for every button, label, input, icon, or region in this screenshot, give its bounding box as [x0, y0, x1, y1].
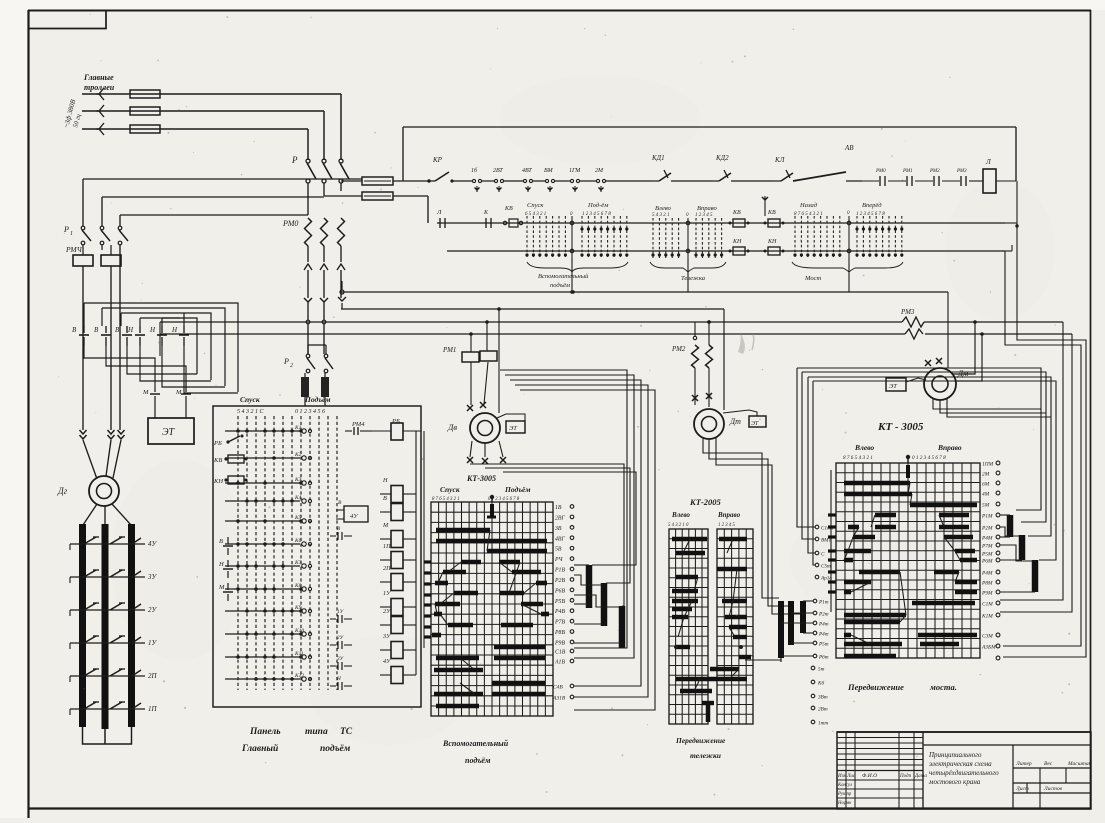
svg-text:Вправо: Вправо: [697, 205, 717, 212]
svg-text:Вправо: Вправо: [717, 511, 741, 519]
grid3 cam bars: [844, 483, 977, 656]
panel aux contact 4У box: [336, 500, 368, 522]
svg-text:РМ4: РМ4: [351, 421, 365, 428]
controller мост zero: [847, 211, 851, 258]
svg-text:С5т: С5т: [821, 564, 831, 570]
svg-text:4У: 4У: [148, 540, 158, 548]
svg-text:Н: Н: [171, 326, 178, 334]
svg-text:К12: К12: [294, 673, 304, 679]
svg-text:Вспомогательный: Вспомогательный: [538, 273, 589, 280]
wires РМ1 to motor: [471, 309, 499, 413]
svg-text:Р2М: Р2М: [981, 526, 993, 532]
panel header Спуск Подъём: [237, 395, 331, 415]
svg-text:К7: К7: [294, 560, 302, 566]
contact Л aux: [436, 209, 445, 228]
svg-text:3У: 3У: [147, 573, 158, 581]
svg-text:2У: 2У: [148, 606, 158, 614]
knife switch Р1: [63, 225, 128, 245]
grid3 right terminal labels: [981, 461, 1000, 660]
wires motor Дм to grid3 bundle: [933, 399, 1051, 510]
svg-text:М: М: [175, 389, 182, 396]
svg-text:Передвижение: Передвижение: [847, 682, 904, 692]
wires converging to motor Дг: [83, 440, 121, 479]
grid2 upper terminal labels: [815, 525, 833, 581]
controller Назад columns: [793, 202, 841, 258]
svg-text:2П: 2П: [148, 672, 158, 680]
grid1 caption: [442, 739, 509, 765]
svg-text:ТС: ТС: [340, 727, 353, 737]
svg-text:мостового крана: мостового крана: [928, 778, 981, 786]
svg-text:1П: 1П: [383, 543, 391, 550]
svg-text:М: М: [382, 522, 389, 529]
svg-text:Рук.пр: Рук.пр: [837, 792, 852, 797]
svg-text:РМ2: РМ2: [671, 345, 686, 353]
svg-text:Р6В: Р6В: [554, 588, 565, 594]
svg-text:АВ: АВ: [844, 144, 854, 152]
wire taps to left circuit: [83, 178, 362, 180]
contact КВ with box: [503, 206, 522, 227]
svg-text:Р: Р: [291, 155, 298, 165]
panel interlock contact РМ4: [345, 421, 372, 435]
svg-text:3Вт: 3Вт: [818, 695, 828, 701]
right bundle corners down: [1000, 245, 1086, 657]
svg-text:Вправо: Вправо: [937, 443, 962, 452]
svg-text:А3БМ: А3БМ: [981, 645, 996, 651]
svg-text:КВ: КВ: [732, 210, 741, 216]
grid2 diagonals and dots: [674, 539, 743, 722]
panel left contacts В Н М: [218, 537, 233, 601]
svg-text:2П: 2П: [383, 565, 391, 572]
svg-text:1У: 1У: [383, 590, 391, 597]
svg-text:Главные: Главные: [83, 73, 114, 82]
svg-text:ЭТ: ЭТ: [509, 425, 517, 432]
svg-text:троллеи: троллеи: [84, 83, 115, 92]
grid1 step diagonals: [435, 530, 541, 694]
motor Дм: [924, 358, 968, 400]
svg-text:4ВГ: 4ВГ: [555, 535, 565, 542]
svg-text:Панель: Панель: [249, 727, 281, 737]
svg-text:Дв: Дв: [447, 422, 457, 432]
svg-text:Р7М: Р7М: [981, 544, 993, 550]
panel relay coil РБ: [372, 418, 421, 440]
trolley phase wire L2: [82, 105, 324, 117]
svg-text:К1М: К1М: [981, 614, 993, 620]
paper smudge marks: [738, 332, 754, 354]
svg-text:РМЧ: РМЧ: [65, 245, 83, 254]
svg-text:2ВТ: 2ВТ: [493, 168, 503, 174]
svg-text:М: М: [142, 389, 149, 396]
svg-text:РМ3: РМ3: [900, 308, 915, 316]
svg-text:5 4 3 2 1 С: 5 4 3 2 1 С: [237, 408, 265, 415]
panel contact КВ: [213, 455, 248, 464]
svg-text:КТ-2005: КТ-2005: [689, 497, 722, 507]
svg-text:КД1: КД1: [651, 154, 665, 162]
svg-text:РМ1: РМ1: [902, 169, 913, 174]
wires motor to resistor bank: [83, 504, 131, 525]
svg-text:КТ - 3005: КТ - 3005: [877, 421, 924, 433]
svg-text:моста.: моста.: [929, 682, 957, 692]
svg-text:тележки: тележки: [690, 751, 721, 760]
wire bundle РМ1 area to grid1 terminals: [500, 370, 655, 710]
svg-text:5В: 5В: [555, 547, 562, 553]
grid3 left wire stubs: [828, 470, 836, 612]
svg-text:1: 1: [70, 231, 73, 237]
brake magnet ЭТ мост: [880, 364, 926, 391]
svg-text:В: В: [72, 326, 77, 334]
controller Влево columns: [651, 205, 680, 258]
grid3 caption: [847, 682, 957, 692]
overload relay РМ1: [442, 334, 497, 362]
svg-text:1 2 3 4 5 6 7 8: 1 2 3 4 5 6 7 8: [582, 212, 611, 217]
svg-text:Н: Н: [149, 326, 156, 334]
svg-text:5т: 5т: [818, 667, 825, 673]
grid1 left wire stubs: [421, 431, 431, 658]
grid1 right terminal labels: [552, 505, 574, 702]
svg-text:РМ2: РМ2: [929, 169, 940, 174]
wire bus to Дм: [928, 292, 948, 370]
svg-text:0 1 2 3 4 5 6 7 8: 0 1 2 3 4 5 6 7 8: [912, 454, 946, 461]
motor branch chevrons: [304, 298, 328, 354]
overload relay РМ3: [900, 308, 925, 339]
line contactor coil Л: [983, 158, 1016, 193]
wire third phase: [119, 245, 121, 430]
svg-text:Р1т: Р1т: [818, 600, 829, 606]
limit switch contacts row: [452, 167, 651, 192]
svg-text:Р6т: Р6т: [818, 655, 829, 661]
svg-text:Главный: Главный: [241, 743, 278, 754]
grid3 zero column marker: [906, 455, 910, 478]
svg-text:РМ3: РМ3: [956, 169, 967, 174]
svg-text:Р1В: Р1В: [554, 568, 565, 574]
fuse F3: [130, 125, 160, 133]
svg-text:Тележка: Тележка: [681, 275, 705, 282]
grid1 cam bars: [432, 530, 549, 706]
overload coil РМЧ: [65, 245, 93, 430]
svg-text:Р2т: Р2т: [818, 612, 829, 618]
svg-text:5М: 5М: [982, 503, 990, 509]
svg-text:6М: 6М: [982, 482, 990, 488]
svg-text:С1М: С1М: [982, 602, 993, 608]
svg-text:Подъём: Подъём: [504, 485, 531, 494]
paper tone blotches: [110, 75, 1055, 745]
brake magnet ЭТ тележка: [721, 410, 766, 427]
brake contact М: [142, 388, 160, 402]
svg-text:Р5т: Р5т: [818, 642, 829, 648]
svg-text:4М: 4М: [982, 492, 990, 498]
relay contact КЛ: [773, 156, 793, 181]
svg-text:К4: К4: [294, 494, 302, 501]
grid1 step resistor bars: [574, 565, 622, 648]
svg-text:1б: 1б: [471, 167, 478, 174]
svg-text:РМ0: РМ0: [875, 169, 886, 174]
svg-text:Р7В: Р7В: [554, 620, 565, 626]
controller zero column: [570, 212, 574, 258]
grid2 resistor bars: [745, 599, 817, 662]
svg-text:А31В: А31В: [552, 696, 566, 702]
svg-text:КН: КН: [767, 239, 777, 245]
svg-text:Нормк: Нормк: [837, 801, 852, 806]
resistor bank bottom link: [83, 727, 132, 744]
motor Дт: [692, 393, 741, 439]
wire fuse outputs: [393, 127, 435, 223]
controller Спуск columns: [525, 202, 567, 258]
svg-text:ВМ: ВМ: [544, 168, 554, 174]
knife switch P: [291, 155, 349, 183]
controller tележка zero: [686, 213, 690, 258]
svg-text:КТ-3005: КТ-3005: [466, 474, 496, 483]
brake magnet ЭТ вспом: [497, 414, 525, 433]
svg-text:Р4В: Р4В: [554, 608, 565, 615]
svg-text:С: С: [821, 552, 825, 558]
svg-text:Кб: Кб: [817, 680, 824, 687]
svg-text:М: М: [218, 584, 225, 591]
wire from P to fuses: [308, 181, 362, 215]
svg-text:Р1М: Р1М: [981, 514, 993, 520]
svg-text:Р4М: Р4М: [981, 536, 993, 542]
svg-text:Н: Н: [382, 477, 388, 484]
svg-text:Р4т: Р4т: [818, 631, 829, 638]
wire bundle grid2 terminals risers: [797, 368, 815, 565]
grid2 spare terminals: [811, 666, 828, 726]
emergency switch КР: [403, 156, 454, 183]
svg-text:Консул: Консул: [837, 783, 852, 788]
fuse F7: [321, 373, 329, 406]
panel ТС outline: [213, 406, 421, 707]
wires motor Дт down: [703, 438, 801, 614]
wires РМ2 to motor Дт: [695, 309, 724, 410]
svg-text:ЭТ: ЭТ: [751, 421, 759, 427]
svg-text:Вперёд: Вперёд: [862, 202, 882, 209]
contacts КВ КН мост: [764, 193, 785, 255]
trolley phase wire L3: [82, 123, 308, 135]
svg-text:5 4 3 2 1: 5 4 3 2 1: [652, 213, 670, 218]
title block: [837, 732, 1092, 809]
control section top rail: [403, 127, 1016, 181]
overload relay РМ2: [671, 320, 713, 368]
svg-text:В: В: [94, 326, 99, 334]
svg-text:Изм: Изм: [837, 774, 847, 779]
svg-text:Ф.И.О: Ф.И.О: [862, 773, 877, 779]
svg-text:Р6М: Р6М: [981, 559, 993, 565]
svg-text:КЛ: КЛ: [774, 156, 786, 164]
svg-text:В: В: [219, 538, 223, 545]
svg-text:Р: Р: [63, 225, 69, 234]
controller grid КТ-3005 вспомогательный подъём: [431, 485, 553, 716]
svg-text:2: 2: [290, 363, 293, 369]
corner stamp box: [28, 10, 106, 29]
brace and caption Тележка: [650, 262, 726, 282]
svg-text:Назад: Назад: [799, 202, 818, 209]
svg-text:1 2 3 4 5 6 7 8: 1 2 3 4 5 6 7 8: [856, 212, 885, 217]
wire bundle motor Дв rotor to steps: [470, 463, 636, 606]
switch АВ blade: [793, 144, 862, 181]
svg-text:Дт: Дт: [729, 417, 741, 426]
svg-text:КН: КН: [213, 478, 223, 485]
svg-text:1ГМ: 1ГМ: [569, 168, 581, 174]
svg-text:Р9В: Р9В: [554, 640, 565, 646]
resistor bank element R2: [102, 524, 109, 729]
svg-text:РМ0: РМ0: [282, 219, 298, 228]
svg-text:2Вт: 2Вт: [818, 707, 828, 713]
controller grid КТ-2005 left half: [669, 529, 708, 724]
fuse F2: [130, 107, 160, 115]
svg-text:ЭТ: ЭТ: [162, 427, 176, 438]
controller grid КТ-3005 мост header: [843, 443, 962, 461]
panel cam contact rows: [225, 425, 312, 681]
grid2 caption: [675, 736, 726, 760]
wires motor Дв down: [467, 441, 506, 464]
svg-text:Дг: Дг: [57, 486, 68, 496]
svg-text:КР: КР: [432, 156, 443, 164]
fuse F1: [130, 90, 160, 98]
svg-text:К6: К6: [294, 538, 302, 544]
svg-text:ЭТ: ЭТ: [889, 383, 897, 390]
overload coil РМЧ second: [101, 245, 121, 430]
bus wire C: [160, 321, 1063, 323]
panel caption: [241, 727, 353, 754]
master controller rails: [437, 223, 1005, 251]
svg-text:Н: Н: [336, 676, 341, 682]
motor Дг: [57, 476, 119, 506]
fuse F6: [301, 373, 309, 406]
fuse F4: [362, 177, 393, 185]
svg-text:КН: КН: [732, 239, 742, 245]
svg-text:Р8В: Р8В: [554, 630, 565, 636]
phase chevrons to motor: [0, 0, 1, 1]
svg-text:КВ: КВ: [504, 206, 513, 212]
contact К: [483, 210, 491, 228]
resistor bank element R1: [79, 524, 86, 727]
svg-text:С4В: С4В: [553, 684, 563, 691]
svg-text:8 7 6 5 4 3 2 1: 8 7 6 5 4 3 2 1: [794, 212, 823, 217]
svg-text:8 7 6 5 4 3 2 1: 8 7 6 5 4 3 2 1: [843, 454, 873, 461]
svg-text:Мост: Мост: [804, 275, 821, 282]
relay contact КД2: [711, 154, 773, 181]
svg-text:Р5В: Р5В: [554, 599, 565, 605]
svg-text:В: В: [383, 495, 387, 502]
grid2 lower terminal labels: [781, 599, 829, 660]
svg-text:Лист: Лист: [1015, 786, 1029, 792]
svg-text:5 4 3 2 1 0: 5 4 3 2 1 0: [668, 523, 689, 528]
wire risers right of Дм: [953, 320, 984, 381]
svg-text:С3М: С3М: [982, 634, 993, 640]
brake magnet ЭТ: [148, 402, 194, 444]
resistor bank element R3: [128, 524, 135, 727]
svg-text:Лис: Лис: [846, 774, 856, 779]
bus wire D: [160, 333, 1072, 335]
grid3 diagonals: [844, 483, 960, 644]
svg-text:подъём: подъём: [465, 756, 491, 765]
relay contact КД1: [651, 154, 711, 181]
svg-text:Литер: Литер: [1015, 761, 1032, 767]
panel relay РБ contact: [213, 435, 244, 448]
grid1 zero column marker: [487, 495, 496, 517]
grid2 cam bars: [672, 539, 751, 703]
bus left tail wires: [160, 322, 170, 364]
svg-text:0 1 2 3 4 5 6: 0 1 2 3 4 5 6: [295, 408, 325, 415]
panel dashed contact columns: [238, 416, 337, 690]
svg-text:8 7 6 5 4 3 2 1: 8 7 6 5 4 3 2 1: [432, 497, 460, 502]
svg-text:четырёхдвигательного: четырёхдвигательного: [929, 769, 999, 777]
svg-text:электрическая схема: электрическая схема: [929, 760, 992, 768]
svg-text:К10: К10: [294, 628, 304, 634]
svg-text:2ВГ: 2ВГ: [555, 515, 565, 521]
svg-text:Под-ём: Под-ём: [587, 202, 608, 209]
svg-text:Р4М: Р4М: [981, 571, 993, 577]
svg-text:1тт: 1тт: [818, 721, 828, 727]
svg-text:А1В: А1В: [554, 660, 565, 666]
trolley phase wire L1: [82, 88, 341, 100]
svg-text:Спуск: Спуск: [527, 202, 544, 209]
brace and caption Мост: [792, 262, 903, 282]
svg-text:2М: 2М: [982, 472, 990, 478]
svg-text:1ПМ: 1ПМ: [982, 462, 994, 468]
svg-text:КД2: КД2: [715, 154, 729, 162]
motor Дв: [447, 402, 500, 443]
nest lower wires: [84, 346, 238, 393]
svg-text:Р9М: Р9М: [981, 591, 993, 597]
svg-text:Р8М: Р8М: [981, 581, 993, 587]
knife switch Р2: [283, 345, 333, 373]
wire bus to P1: [83, 179, 362, 226]
grid3 step resistor bars: [1000, 515, 1035, 592]
overload relay РМ0: [282, 218, 345, 298]
svg-text:подъём: подъём: [550, 282, 570, 289]
svg-text:Листов: Листов: [1043, 786, 1063, 792]
svg-text:Р5М: Р5М: [981, 552, 993, 558]
svg-text:Спуск: Спуск: [240, 395, 260, 404]
wire bundle across to far right: [797, 368, 1056, 560]
panel coil column: [380, 431, 416, 684]
svg-text:Влево: Влево: [655, 205, 672, 212]
svg-text:Н: Н: [218, 561, 224, 568]
svg-text:2У: 2У: [383, 608, 391, 615]
svg-text:РМ1: РМ1: [442, 346, 456, 354]
svg-text:1У: 1У: [148, 639, 158, 647]
bus wire A: [338, 281, 948, 309]
svg-text:1В: 1В: [555, 505, 562, 511]
brace and caption Вспомогательный подъём: [527, 262, 628, 289]
svg-text:Спуск: Спуск: [440, 485, 460, 494]
svg-text:Вспомогательный: Вспомогательный: [442, 739, 509, 748]
contactor contacts В В В Н Н Н: [72, 326, 189, 346]
svg-text:подъём: подъём: [320, 743, 351, 754]
controller right end wires: [1005, 181, 1019, 251]
wire drops to switch P: [308, 94, 341, 160]
svg-text:С1В: С1В: [555, 650, 566, 656]
wire from КЛ row down: [762, 196, 768, 216]
svg-text:Л: Л: [436, 209, 442, 216]
svg-text:КВ: КВ: [767, 210, 776, 216]
svg-text:Влево: Влево: [854, 443, 874, 452]
panel contact КН: [213, 476, 248, 485]
brake contact М second: [175, 366, 191, 402]
svg-text:В: В: [115, 326, 120, 334]
svg-text:1П: 1П: [148, 705, 158, 713]
bus wire B: [341, 308, 724, 310]
reversing contactor nest wires: [84, 303, 238, 392]
svg-text:Дата: Дата: [914, 774, 927, 779]
svg-text:1 2 3 4 5: 1 2 3 4 5: [695, 213, 713, 218]
svg-text:Влево: Влево: [671, 511, 690, 519]
svg-text:4У: 4У: [383, 658, 391, 665]
controller Подъём columns: [580, 202, 628, 258]
svg-text:3В: 3В: [554, 526, 562, 532]
controller grid КТ-2005 header: [668, 497, 741, 528]
controller Вперёд columns: [855, 202, 903, 258]
svg-text:Масштаб: Масштаб: [1067, 760, 1092, 767]
controller Вправо columns: [694, 205, 723, 258]
